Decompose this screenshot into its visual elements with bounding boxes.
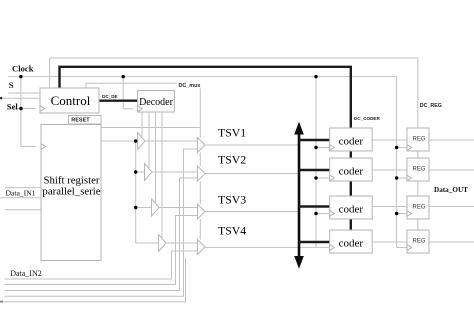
wire: thick TSV bus vertical double arrow (294, 122, 304, 269)
svg-text:Control: Control (51, 93, 91, 108)
block REG 2 (407, 158, 429, 181)
wire: REG clock stubs (397, 148, 407, 248)
wire: clock drop to Decoder clock input (123, 77, 133, 109)
label S (9, 80, 14, 90)
junction dot small bus row 3 (134, 206, 137, 209)
wire: small mux input bus vertical (135, 141, 137, 243)
svg-text:Data_IN1: Data_IN1 (6, 189, 36, 198)
mux big triangle 2 (198, 166, 206, 181)
block coder 2 (330, 158, 373, 181)
svg-text:Data_IN2: Data_IN2 (10, 269, 42, 278)
wire: TSV1 line from big triangle 1 to coder 1 clock (205, 144, 298, 146)
pin: clock triangle on REG 1 (407, 145, 412, 151)
label DC_DE (102, 94, 118, 99)
wire: bottom line 5 short riser (1, 258, 186, 302)
wire: lower shift register input line (5, 209, 41, 211)
svg-text:TSV2: TSV2 (218, 153, 246, 167)
wire: Data_IN1 upper line (5, 187, 41, 189)
mux big triangle 3 (198, 204, 206, 219)
wire: REG chain thread segments between REG boxes (417, 151, 419, 230)
wire: coder clock stub row 2 (316, 177, 330, 179)
buffer small mux triangle 2 (145, 164, 153, 181)
junction dot small bus row 1 (134, 139, 137, 142)
node tick at left edge y98 (0, 97, 2, 99)
wire: second control input from left edge (0, 97, 40, 99)
wire: S input (8, 92, 40, 94)
wire: thick stub bus to coder 2 (299, 169, 330, 171)
svg-text:DC_CODER: DC_CODER (354, 116, 380, 121)
pin: clock triangle on coder 2 (330, 175, 335, 181)
mux big triangle 1 (198, 138, 206, 153)
wire: bus stub to small triangle 4 (136, 242, 159, 244)
wire: REG 3 output row (429, 206, 474, 208)
wire: thick stub bus to coder 1 (299, 139, 330, 141)
pin: clock triangle on REG 2 (407, 175, 412, 181)
junction dot on Clock at decoder drop (122, 75, 125, 78)
junction dot REG clock row 3 (395, 212, 398, 215)
wire: thick coder chain thread segments (350, 151, 352, 230)
wire: Sel input (8, 108, 35, 110)
svg-text:Clock: Clock (12, 63, 34, 73)
pin: clock triangle on coder 3 (330, 211, 335, 217)
wire: coder 1 output to REG 1 (372, 139, 407, 141)
wire: coder clock rail vertical (315, 77, 317, 248)
junction dot coder clock row 3 (314, 212, 317, 215)
pin: clock triangle on coder 1 (330, 145, 335, 151)
label TSV1 (218, 126, 246, 140)
wire: coder clock stub row 3 (316, 213, 330, 215)
label Sel (7, 102, 19, 112)
wire: coder 4 output to REG 4 (372, 241, 407, 243)
junction dot REG clock row 1 (395, 146, 398, 149)
wire: coder clock stub row 1 (316, 147, 330, 149)
svg-text:coder: coder (339, 166, 364, 178)
junction dot coder clock row 1 (314, 146, 317, 149)
wire: TSV3 line from big triangle 3 to coder 3 clock (205, 211, 298, 213)
pin: clock triangle on REG 4 (407, 245, 412, 251)
label DC_CODER (354, 116, 380, 121)
svg-text:DC_mux: DC_mux (179, 83, 201, 89)
pin: clock triangle on coder 4 (330, 245, 335, 251)
wire: shift register serial out to small mux bus (101, 140, 138, 142)
junction dot on Clock at coder rail (314, 75, 317, 78)
wire: main Clock horizontal line across top (8, 76, 397, 78)
pin: input triangle on Control (Sel) (40, 106, 45, 112)
wire: REG 2 output row (429, 169, 474, 171)
block coder 4 (330, 230, 373, 253)
block U2 Shift register parallel_serie (41, 125, 101, 261)
wire: REG 4 output row (429, 241, 474, 243)
svg-text:parallel_serie: parallel_serie (42, 186, 100, 198)
buffer small mux triangle 1 (138, 133, 146, 150)
wire: thin line from Control top up and right to DC_REG chain (50, 58, 418, 128)
wire: thick stub bus to coder 4 (299, 241, 330, 243)
block REG 3 (407, 196, 429, 219)
svg-text:RESET: RESET (71, 118, 90, 124)
label TSV4 (218, 224, 246, 238)
label TSV2 (218, 153, 246, 167)
junction dot small bus row 2 (134, 170, 137, 173)
wire: thick clock/control line from Control top to coder chain (60, 67, 351, 128)
svg-text:TSV1: TSV1 (218, 126, 246, 140)
junction dot on Sel wire (19, 107, 22, 110)
svg-text:TSV4: TSV4 (218, 224, 246, 238)
block U3 Decoder (138, 91, 175, 113)
wire: small triangle 4 output to big triangle 4 (166, 242, 198, 244)
pin: clock triangle on Decoder (138, 106, 143, 112)
wire: REG 1 output Data_OUT row (429, 139, 474, 141)
wire: Data_IN2 bottom line 1 rising to big triangle 4 input (5, 251, 198, 279)
svg-text:DC_DE: DC_DE (102, 94, 118, 99)
wire: small triangle 1 output to big triangle 1 (145, 140, 198, 142)
wire: bus stub to small triangle 3 (136, 207, 152, 209)
wire: thick stub bus to coder 3 (299, 205, 330, 207)
block coder 1 (330, 128, 373, 151)
svg-text:S: S (9, 80, 14, 90)
buffer small mux triangle 3 (152, 199, 160, 216)
block REG 1 (407, 128, 429, 151)
svg-text:coder: coder (339, 136, 364, 148)
wire: TSV4 line from big triangle 4 to coder 4 clock (205, 246, 330, 248)
svg-text:TSV3: TSV3 (218, 193, 246, 207)
wire: Clock line corner down to REG clock rail (396, 77, 398, 248)
wire: decoder output 3 down to small triangle 3 (155, 112, 157, 204)
svg-text:Decoder: Decoder (139, 97, 174, 108)
svg-text:REG: REG (412, 137, 425, 143)
node tick at left edge y302 (0, 301, 3, 303)
wire: coder 2 output to REG 2 (372, 169, 407, 171)
wire: TSV2 line from big triangle 2 to coder 2 clock (205, 173, 298, 175)
wire: coder 3 output to REG 3 (372, 206, 407, 208)
buffer small mux triangle 4 (159, 235, 167, 252)
label Data_OUT (434, 186, 468, 194)
wire: bottom line 2 rising to big triangle 3 input (5, 216, 198, 285)
wire: bus stub to small triangle 2 (136, 171, 145, 173)
junction dot coder clock row 2 (314, 176, 317, 179)
wire: Data_IN1 line (0, 197, 41, 199)
label TSV3 (218, 193, 246, 207)
mux big triangle 4 (198, 240, 206, 255)
wire: vertical bus from Clock dot through Sel down to shift register (21, 77, 37, 147)
pin: input triangle on Shift register (41, 144, 46, 150)
svg-text:REG: REG (412, 239, 425, 245)
label Clock (12, 63, 34, 73)
svg-text:DC_REG: DC_REG (420, 103, 442, 109)
junction dot REG clock row 2 (395, 176, 398, 179)
wire: small triangle 3 output to big triangle 3 (159, 207, 198, 209)
wire: faint jog from shift-register right top to select rail (101, 127, 200, 129)
wire: select line from Control top to big mux triangles (threads tops) (86, 83, 200, 239)
wire: bottom line 4 rising to big triangle 1 input (5, 149, 198, 296)
block REG 4 (407, 230, 429, 253)
wire: bottom line 3 rising to big triangle 2 input (5, 178, 198, 291)
svg-text:REG: REG (412, 205, 425, 211)
svg-text:REG: REG (412, 167, 425, 173)
label Data_IN2 (10, 269, 42, 278)
wire: small triangle 2 output to big triangle 2 (152, 171, 198, 173)
svg-text:coder: coder (339, 204, 364, 216)
wire: decoder output 2 down to small triangle 2 (148, 112, 150, 168)
label DC_mux (177, 81, 201, 89)
pin: clock triangle on REG 3 (407, 211, 412, 217)
label DC_REG (420, 103, 442, 109)
wire: decoder output 4 down to small triangle 4 (161, 112, 163, 239)
svg-text:Sel: Sel (7, 102, 19, 112)
wire: decoder output 1 down to small triangle 1 (141, 112, 143, 137)
block coder 3 (330, 196, 373, 219)
junction dot on Clock at Sel bus (19, 75, 22, 78)
wire: thick DC_DE bus Control to Decoder (99, 99, 138, 101)
svg-text:coder: coder (339, 238, 364, 250)
block U1 Control (40, 88, 99, 113)
label Data_IN1 (6, 189, 36, 198)
svg-text:Data_OUT: Data_OUT (434, 186, 468, 194)
block RESET box (69, 116, 102, 125)
